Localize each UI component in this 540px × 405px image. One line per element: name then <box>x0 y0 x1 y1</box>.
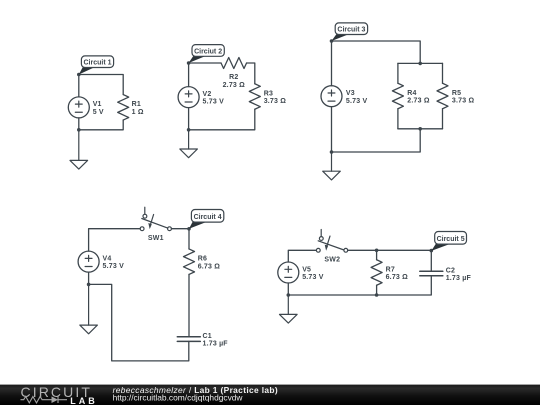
label V3 value <box>346 90 368 105</box>
callout Circiut 2 <box>189 45 225 63</box>
wire V4 bottom lead <box>88 272 90 284</box>
wire bottom rail circuit 2 <box>189 109 255 130</box>
wire top rail circuit 1 <box>79 75 123 95</box>
switch SW1 <box>140 207 171 230</box>
svg-text:R6: R6 <box>198 256 207 263</box>
node circuit 3 top <box>330 39 334 43</box>
wire parallel bottom rail <box>398 128 443 130</box>
svg-text:R7: R7 <box>386 266 395 273</box>
wire bottom rail circuit 5 <box>288 276 431 295</box>
svg-text:3.73 Ω: 3.73 Ω <box>264 98 287 105</box>
wire parallel top rail <box>398 62 443 64</box>
wire V2 bottom lead <box>188 108 190 130</box>
label R4 value <box>407 90 430 105</box>
svg-text:SW1: SW1 <box>148 235 164 242</box>
callout Circuit 3 <box>332 23 368 41</box>
ground circuit 3 <box>323 152 341 180</box>
resistor R3 <box>249 84 260 110</box>
resistor R1 <box>118 95 129 121</box>
svg-text:1.73 µF: 1.73 µF <box>203 341 229 348</box>
svg-text:2.73 Ω: 2.73 Ω <box>223 82 246 89</box>
ground circuit 2 <box>180 130 198 158</box>
svg-text:Circiut 2: Circiut 2 <box>194 48 222 55</box>
svg-text:C1: C1 <box>203 333 212 340</box>
wire SW2 to V5 <box>288 250 316 262</box>
svg-text:1.73 µF: 1.73 µF <box>446 275 472 282</box>
voltage source V4 <box>78 251 99 272</box>
capacitor C2 <box>420 271 443 276</box>
wire R4 top lead <box>397 63 399 83</box>
label R2 value <box>223 74 246 89</box>
svg-text:2.73 Ω: 2.73 Ω <box>407 98 430 105</box>
voltage source V3 <box>321 86 342 107</box>
ground circuit 1 <box>70 130 88 169</box>
label V1 value <box>93 101 104 116</box>
svg-text:R3: R3 <box>264 90 273 97</box>
svg-text:5.73 V: 5.73 V <box>103 263 125 270</box>
node circuit 3 bottom <box>330 150 334 154</box>
svg-text:C2: C2 <box>446 267 455 274</box>
wire R5 top lead <box>442 63 444 83</box>
resistor R2 <box>221 58 247 69</box>
svg-text:http://circuitlab.com/cdjqtqhd: http://circuitlab.com/cdjqtqhdgcvdw <box>113 393 244 403</box>
wire SW1 to R6 <box>171 229 189 249</box>
wire R6 to C1 <box>188 274 190 336</box>
node circuit 2 top <box>187 61 191 65</box>
wire V3 top lead <box>331 41 333 86</box>
switch SW2 <box>316 230 347 253</box>
wire V2 top lead <box>188 63 190 87</box>
svg-text:V3: V3 <box>346 90 355 97</box>
svg-text:5.73 V: 5.73 V <box>302 274 324 281</box>
svg-text:6.73 Ω: 6.73 Ω <box>386 274 409 281</box>
node circuit 4 switch-R6 <box>187 227 191 231</box>
svg-text:Circuit 5: Circuit 5 <box>437 236 465 243</box>
node circuit 1 top <box>77 73 81 77</box>
wire top rail circuit 3 <box>332 41 421 63</box>
label R1 value <box>132 101 144 116</box>
resistor R7 <box>371 260 382 286</box>
wire R7 top lead <box>376 250 378 259</box>
svg-text:SW2: SW2 <box>324 256 340 263</box>
svg-text:V4: V4 <box>103 256 112 263</box>
ground circuit 4 <box>80 284 98 333</box>
voltage source V1 <box>68 97 89 118</box>
wire V1 top lead <box>78 75 80 97</box>
node circuit 4 V4 bottom <box>87 283 91 287</box>
node circuit 5 R7 bottom <box>375 293 379 297</box>
voltage source V2 <box>178 87 199 108</box>
label V5 value <box>302 266 324 281</box>
node circuit 5 R7 top <box>375 249 379 253</box>
label C2 value <box>446 267 472 282</box>
svg-text:5.73 V: 5.73 V <box>346 98 368 105</box>
svg-text:3.73 Ω: 3.73 Ω <box>452 98 475 105</box>
node circuit 5 C2 top <box>430 249 434 253</box>
svg-text:Circuit 1: Circuit 1 <box>83 60 111 67</box>
label C1 value <box>203 333 229 348</box>
wire bottom rail circuit 1 <box>79 120 123 130</box>
wire R2 to R3 <box>247 63 255 84</box>
wire bottom return circuit 3 <box>332 129 421 152</box>
node circuit 3 parallel bottom <box>418 127 422 131</box>
label R3 value <box>264 90 287 105</box>
svg-text:5.73 V: 5.73 V <box>203 99 225 106</box>
wire R7 bottom lead <box>376 285 378 295</box>
svg-text:R1: R1 <box>132 101 141 108</box>
svg-text:5 V: 5 V <box>93 109 104 116</box>
svg-text:6.73 Ω: 6.73 Ω <box>198 263 221 270</box>
svg-text:V2: V2 <box>203 91 212 98</box>
svg-text:1 Ω: 1 Ω <box>132 109 144 116</box>
wire top rail circuit 2 <box>189 62 221 64</box>
wire R5 bottom lead <box>442 109 444 129</box>
wire SW1 to V4 <box>89 229 141 251</box>
wire V5 bottom lead <box>287 283 289 295</box>
resistor R6 <box>184 249 195 275</box>
logo resistor-diode symbol <box>21 396 68 403</box>
svg-text:Circuit 4: Circuit 4 <box>194 214 222 221</box>
label R6 value <box>198 256 221 271</box>
capacitor C1 <box>177 337 200 342</box>
label V2 value <box>203 91 225 106</box>
svg-text:R5: R5 <box>452 90 461 97</box>
node circuit 5 V5 bottom <box>287 293 291 297</box>
node circuit 1 bottom <box>77 128 81 132</box>
node circuit 3 parallel top <box>418 62 422 66</box>
callout Circuit 5 <box>431 232 466 251</box>
svg-text:Circuit 3: Circuit 3 <box>337 27 365 34</box>
svg-text:V1: V1 <box>93 101 102 108</box>
callout Circuit 4 <box>189 210 224 229</box>
label R7 value <box>386 266 409 281</box>
label V4 value <box>103 256 125 271</box>
resistor R5 <box>437 83 448 109</box>
callout Circuit 1 <box>79 56 114 75</box>
svg-text:R4: R4 <box>407 90 416 97</box>
wire SW2 to C2 top rail <box>348 250 432 271</box>
wire R4 bottom lead <box>397 109 399 129</box>
svg-text:LAB: LAB <box>70 396 98 405</box>
voltage source V5 <box>278 262 299 283</box>
node circuit 2 bottom <box>187 128 191 132</box>
svg-text:R2: R2 <box>229 74 238 81</box>
wire V3 bottom lead <box>331 107 333 152</box>
svg-text:V5: V5 <box>302 266 311 273</box>
label R5 value <box>452 90 475 105</box>
wire V1 bottom lead <box>78 118 80 130</box>
ground circuit 5 <box>280 295 298 323</box>
resistor R4 <box>392 83 403 109</box>
wire bottom return circuit 4 <box>89 284 189 361</box>
footer bar <box>0 385 540 405</box>
